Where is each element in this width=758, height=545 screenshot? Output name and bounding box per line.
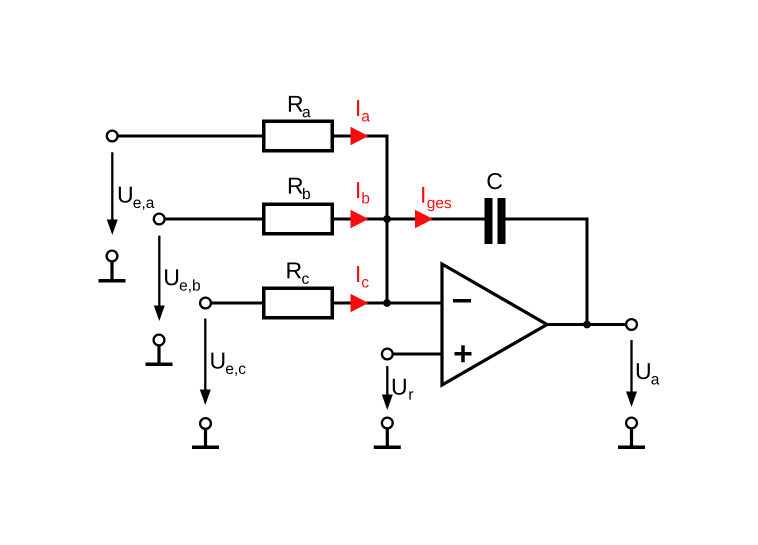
ground: below input c (192, 418, 219, 447)
label Ue,c (211, 353, 245, 376)
label Ue,a (119, 187, 155, 210)
wire: capacitor right plate to output node (feedback) (503, 219, 587, 325)
resistor Ra (264, 121, 333, 151)
terminal: input c (200, 298, 211, 309)
terminal: input b (154, 214, 165, 225)
voltage arrow Ue,b (158, 236, 160, 307)
label Ur (393, 379, 413, 400)
voltage arrow Ur (386, 366, 388, 396)
ground: below Ur (374, 418, 401, 448)
resistor Rb (264, 204, 333, 234)
voltage arrow Ua (630, 340, 632, 392)
node: output junction with feedback (583, 321, 591, 329)
op-amp U1 (442, 264, 547, 385)
label Rb (289, 178, 310, 199)
label Rc (287, 262, 308, 283)
capacitor C plates (485, 198, 493, 244)
wire: non-inverting input (393, 353, 443, 356)
ground: below input a (99, 251, 126, 281)
label C (487, 173, 502, 189)
label Ic (357, 266, 369, 287)
resistor Rc (264, 288, 333, 318)
wire: op-amp output (546, 323, 627, 326)
current arrow Ib (351, 210, 369, 228)
wire: input b to capacitor left plate (165, 218, 487, 221)
ground: below output (618, 418, 645, 448)
terminal: output (626, 319, 637, 330)
node: junction of I_b with summing bus (383, 215, 391, 223)
current arrow Iges (415, 210, 433, 228)
voltage arrow Ue,c (204, 319, 206, 392)
label Iges (422, 187, 451, 211)
wire: input c to op-amp inverting input (211, 302, 442, 305)
terminal: input a (107, 131, 118, 142)
label Ua (637, 363, 660, 384)
label Ra (289, 96, 311, 117)
op-amp plus sign (455, 352, 472, 356)
current arrow Ia (351, 127, 369, 145)
op-amp minus sign (453, 299, 471, 303)
wire: input a to summing bus, and bus down to inverting node (118, 136, 387, 303)
current arrow Ic (351, 294, 369, 312)
node: junction of bus with inverting input line (383, 299, 391, 307)
voltage arrow Ue,a (111, 152, 113, 221)
label Ue,b (165, 269, 200, 292)
ground: below input b (146, 335, 173, 365)
label Ia (357, 100, 370, 121)
label Ib (357, 182, 369, 203)
terminal: non-inverting reference (382, 349, 393, 360)
